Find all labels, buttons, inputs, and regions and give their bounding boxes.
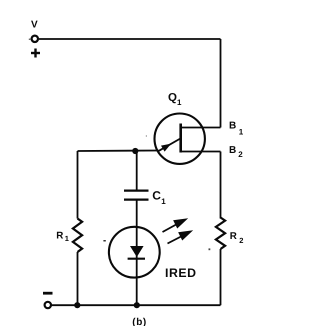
svg-text:(b): (b) — [132, 317, 147, 326]
svg-text:2: 2 — [239, 236, 243, 245]
svg-text:2: 2 — [238, 150, 243, 159]
svg-text:1: 1 — [177, 98, 182, 107]
svg-text:B: B — [229, 121, 236, 132]
svg-text:1: 1 — [239, 128, 244, 137]
svg-text:1: 1 — [65, 234, 69, 243]
svg-text:B: B — [229, 145, 236, 156]
svg-text:IRED: IRED — [165, 266, 197, 280]
svg-text:C: C — [152, 189, 161, 203]
svg-text:R: R — [56, 230, 63, 241]
svg-text:R: R — [230, 231, 237, 242]
svg-text:Q: Q — [168, 92, 177, 104]
svg-text:V: V — [31, 20, 38, 31]
svg-text:1: 1 — [161, 197, 166, 206]
